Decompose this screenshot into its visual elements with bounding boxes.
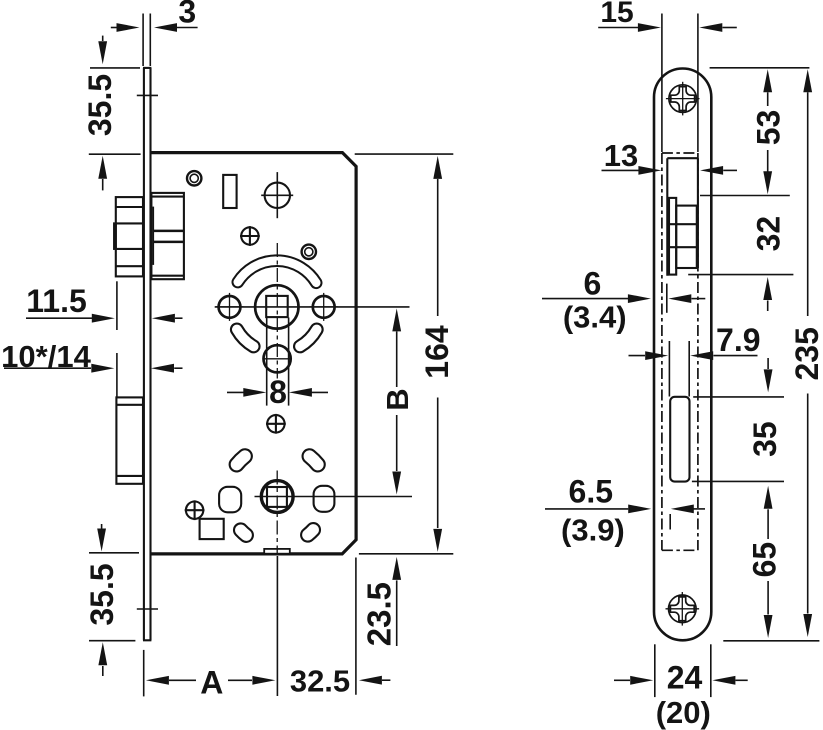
svg-text:8: 8 xyxy=(269,374,287,410)
dim 7.9 arrows xyxy=(629,351,758,360)
svg-text:B: B xyxy=(380,388,415,410)
svg-text:235: 235 xyxy=(789,327,823,380)
lower hub centerline horizontal xyxy=(255,496,413,498)
label 23.5 xyxy=(361,582,398,646)
svg-text:32: 32 xyxy=(750,216,786,252)
dim 24 arrows xyxy=(614,676,748,685)
bean slot hub BR xyxy=(308,530,314,535)
crescent slot above follower xyxy=(238,261,316,283)
svg-text:164: 164 xyxy=(419,325,455,379)
svg-text:6: 6 xyxy=(584,266,602,302)
bean slot hub TR xyxy=(310,456,318,464)
label 65 xyxy=(747,542,783,578)
label 35.5 bottom xyxy=(84,563,120,625)
dim 3 arrows xyxy=(111,23,198,32)
lower hub centerline vertical xyxy=(276,471,278,555)
label 35 xyxy=(747,421,783,457)
label 53 xyxy=(750,110,786,146)
dim 6.5 (3.9) arrows xyxy=(545,505,705,530)
label 7.9 xyxy=(716,322,760,358)
svg-text:65: 65 xyxy=(747,542,783,578)
label 13 xyxy=(604,138,638,173)
dim 32 arrow bottom xyxy=(763,277,772,311)
faceplate break tick upper xyxy=(137,94,158,96)
label 24 xyxy=(667,660,703,696)
faceplate (edge view) xyxy=(143,68,151,640)
lower hub xyxy=(261,481,293,513)
dim 164 line and arrows xyxy=(433,156,442,552)
dim 10*/14 arrows xyxy=(4,364,183,373)
dim B line and arrows xyxy=(392,308,401,494)
rect slot top xyxy=(223,175,236,208)
dim 11.5 arrows xyxy=(26,314,183,323)
dim 8 extension lines xyxy=(267,318,289,406)
label A xyxy=(200,665,223,701)
latch tail block xyxy=(151,193,184,279)
bean slot hub TL xyxy=(237,456,245,464)
dim 24 extension lines xyxy=(655,644,711,697)
svg-text:32.5: 32.5 xyxy=(290,663,350,698)
deadbolt slot xyxy=(670,397,689,482)
dim A extension line xyxy=(143,650,145,697)
svg-text:(3.4): (3.4) xyxy=(563,299,627,334)
label (20) xyxy=(656,695,711,730)
dim 11.5 extension line xyxy=(116,281,118,330)
slot hub right xyxy=(314,486,335,512)
label 15 xyxy=(600,0,633,29)
latch top extension line xyxy=(700,195,790,197)
label 6.5 xyxy=(569,474,613,510)
svg-text:24: 24 xyxy=(667,660,703,696)
phillips screw mid xyxy=(266,414,286,434)
slot top extension line xyxy=(693,396,784,398)
label 10*/14 xyxy=(1,339,91,374)
hole left of follower xyxy=(216,293,244,321)
label 164 xyxy=(419,325,455,379)
dim 65 line and arrows xyxy=(764,516,773,638)
dim 35.5 top arrows xyxy=(98,36,107,191)
dim 53 line and arrows xyxy=(763,69,772,194)
svg-text:13: 13 xyxy=(604,138,638,173)
slot hub left xyxy=(219,487,241,513)
bean slot follower BL xyxy=(237,330,254,347)
bean slot follower BR xyxy=(300,330,317,347)
svg-text:10*/14: 10*/14 xyxy=(1,339,91,374)
label 35.5 top xyxy=(82,74,118,136)
label (3.9) xyxy=(561,513,625,548)
rivet ring upper xyxy=(187,171,201,185)
label 3 xyxy=(178,0,196,30)
label 235 xyxy=(789,327,823,380)
svg-text:35.5: 35.5 xyxy=(84,563,120,625)
hole right of follower xyxy=(310,293,338,321)
dim 7.9 extension lines xyxy=(669,341,689,397)
dim 32.5 extension line xyxy=(355,558,357,695)
dim 15 arrows xyxy=(598,23,737,32)
dim 32.5 arrow right xyxy=(359,676,391,685)
svg-text:(3.9): (3.9) xyxy=(561,513,625,548)
svg-text:6.5: 6.5 xyxy=(569,474,613,510)
label B xyxy=(380,388,415,410)
dim 13 arrows xyxy=(602,166,738,175)
dim 6 (3.4) arrows xyxy=(542,284,705,313)
hidden case dashed right xyxy=(697,153,699,550)
faceplate break tick lower xyxy=(137,608,158,610)
latch bolt front xyxy=(669,198,697,275)
dim 15 extension lines xyxy=(662,14,698,153)
dim 8 arrows xyxy=(227,388,328,397)
square box lower-left xyxy=(200,519,224,539)
svg-text:53: 53 xyxy=(750,110,786,146)
dim 164 extension lines xyxy=(355,154,454,554)
svg-text:15: 15 xyxy=(600,0,633,29)
svg-text:A: A xyxy=(200,665,223,701)
svg-text:23.5: 23.5 xyxy=(361,582,398,646)
svg-text:3: 3 xyxy=(178,0,196,30)
plate top extension line xyxy=(710,67,810,69)
bean slot hub BL xyxy=(241,530,247,535)
label 6 xyxy=(584,266,602,302)
lock case outline xyxy=(151,153,356,554)
follower centerline vertical xyxy=(276,243,278,379)
dim 23.5 line and arrow xyxy=(392,557,401,646)
svg-text:35: 35 xyxy=(747,421,783,457)
svg-text:7.9: 7.9 xyxy=(716,322,760,358)
phillips screw upper xyxy=(240,226,260,246)
dim 10*/14 extension line xyxy=(116,353,118,397)
rivet ring mid xyxy=(302,245,316,259)
dim 35.5 top extension lines xyxy=(89,68,141,154)
latch bolt head xyxy=(114,197,143,276)
plate bottom extension line xyxy=(723,640,819,642)
centerline below case xyxy=(276,556,278,696)
bottom edge tab xyxy=(264,549,290,554)
label 32 xyxy=(750,216,786,252)
label (3.4) xyxy=(563,299,627,334)
deadbolt head xyxy=(116,397,143,483)
latch bottom extension line xyxy=(688,274,793,276)
latch cutout xyxy=(667,158,698,276)
dim A arrows xyxy=(146,676,276,685)
dim 3 extension lines xyxy=(143,14,150,67)
label 11.5 xyxy=(26,283,87,319)
phillips screw lower-left xyxy=(185,500,205,520)
dim 235 line and arrows xyxy=(803,69,812,637)
hidden case dashed left xyxy=(661,153,663,550)
faceplate outline (front view) xyxy=(654,69,711,641)
label 8 xyxy=(269,374,287,410)
hole below follower xyxy=(263,345,290,372)
slot bottom extension line xyxy=(692,480,784,482)
dim 35.5 bottom extension lines xyxy=(89,553,139,641)
label 32.5 xyxy=(290,663,350,698)
svg-text:35.5: 35.5 xyxy=(82,74,118,136)
svg-text:11.5: 11.5 xyxy=(26,283,87,319)
plate screw bottom xyxy=(666,592,700,626)
hidden case dashed top xyxy=(662,152,698,154)
follower hub xyxy=(255,285,298,328)
hidden case dashed bottom xyxy=(662,549,698,551)
dim 35.5 bottom arrows xyxy=(97,524,107,676)
follower centerline horizontal xyxy=(215,306,410,308)
hole top (handle screw) xyxy=(261,172,293,218)
dim 35 arrows xyxy=(764,358,773,516)
plate screw top xyxy=(666,82,700,116)
svg-text:(20): (20) xyxy=(656,695,711,730)
